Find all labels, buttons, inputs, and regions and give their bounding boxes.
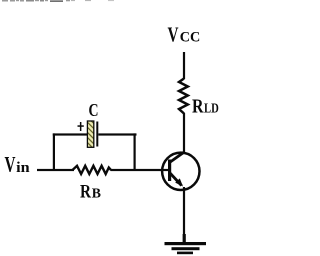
svg-text:B: B [92, 185, 101, 200]
svg-text:R: R [192, 97, 204, 118]
wire loop top-right horizontal [98, 133, 136, 135]
svg-text:V: V [5, 152, 16, 177]
svg-text:LD: LD [204, 101, 219, 116]
wire RLD to collector [183, 113, 185, 153]
resistor RB [73, 166, 112, 174]
ground symbol [165, 242, 207, 245]
transistor Q1 emitter diagonal [170, 173, 182, 186]
capacitor C plus sign [80, 122, 82, 131]
cropped caption text fragments at top edge [2, 0, 114, 2]
transistor Q1 base bar [168, 160, 171, 182]
transistor Q1 collector diagonal [170, 152, 185, 163]
wire loop left vertical [53, 133, 55, 170]
capacitor C right plate [96, 122, 98, 147]
transistor Q1 emitter arrowhead [175, 178, 183, 186]
svg-text:in: in [16, 160, 30, 176]
wire loop top-left horizontal [53, 133, 88, 135]
resistor RLD [179, 79, 188, 114]
svg-text:CC: CC [180, 30, 201, 46]
wire loop right vertical [134, 133, 136, 170]
wire RB to base [111, 169, 170, 171]
svg-text:R: R [80, 181, 91, 202]
svg-text:C: C [89, 100, 99, 120]
transistor Q1 circle [162, 153, 199, 190]
wire Vin to RB [37, 169, 74, 171]
wire emitter to ground [183, 187, 185, 234]
svg-text:V: V [168, 23, 179, 47]
wire Vcc to RLD [183, 52, 185, 79]
capacitor C left plate (hatched electrolytic box) [87, 121, 93, 147]
